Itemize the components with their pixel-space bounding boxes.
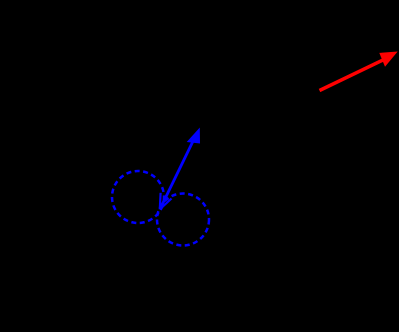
red arrow head [379, 52, 397, 67]
blue arrow bottom head right barb [160, 199, 172, 210]
dashed circle right [157, 194, 209, 246]
blue arrow bottom head left barb [159, 193, 162, 210]
dashed circle left [112, 171, 164, 223]
blue arrow top head [187, 128, 200, 144]
red arrow shaft [320, 60, 385, 91]
blue double-headed arrow shaft [160, 134, 197, 209]
